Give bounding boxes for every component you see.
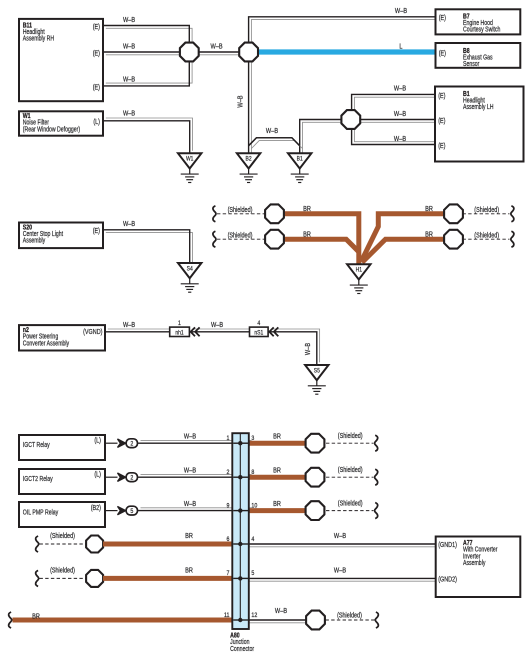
svg-text:Connector: Connector (230, 645, 254, 653)
svg-text:W–B: W–B (123, 321, 135, 329)
svg-text:(B2): (B2) (91, 504, 101, 512)
svg-text:BR: BR (425, 206, 433, 214)
svg-text:BR: BR (273, 433, 281, 441)
svg-text:(Shielded): (Shielded) (338, 500, 363, 508)
svg-text:W–B: W–B (334, 532, 346, 540)
svg-text:W–B: W–B (395, 8, 407, 16)
svg-text:W–B: W–B (184, 433, 196, 441)
svg-text:W–B: W–B (184, 500, 196, 508)
svg-text:(E): (E) (438, 92, 445, 100)
svg-text:(Shielded): (Shielded) (337, 612, 362, 620)
svg-text:1: 1 (178, 320, 181, 327)
svg-text:S5: S5 (314, 368, 320, 375)
svg-text:IGCT2 Relay: IGCT2 Relay (23, 475, 54, 483)
svg-text:(GND1): (GND1) (438, 541, 457, 549)
svg-text:(Shielded): (Shielded) (338, 433, 363, 441)
svg-text:BR: BR (273, 500, 281, 508)
svg-text:(Shielded): (Shielded) (50, 567, 75, 575)
svg-text:W–B: W–B (123, 110, 135, 118)
svg-text:11: 11 (224, 611, 230, 619)
svg-text:Converter Assembly: Converter Assembly (23, 340, 70, 348)
svg-text:12: 12 (251, 611, 257, 619)
svg-text:W–B: W–B (210, 43, 222, 51)
svg-text:L: L (399, 43, 403, 51)
svg-text:(E): (E) (93, 50, 100, 58)
svg-text:(Shielded): (Shielded) (228, 232, 253, 240)
svg-text:W–B: W–B (394, 110, 406, 118)
svg-text:H1: H1 (356, 267, 362, 274)
svg-text:nS1: nS1 (254, 330, 263, 337)
svg-text:W–B: W–B (237, 95, 245, 107)
svg-text:(Shielded): (Shielded) (474, 206, 499, 214)
svg-text:Courtesy Switch: Courtesy Switch (463, 26, 501, 34)
svg-text:(E): (E) (93, 23, 100, 31)
svg-text:Sensor: Sensor (463, 60, 479, 68)
svg-text:(Shielded): (Shielded) (50, 532, 75, 540)
svg-text:W–B: W–B (394, 135, 406, 143)
svg-text:W–B: W–B (123, 16, 135, 24)
svg-text:BR: BR (273, 467, 281, 475)
svg-text:W–B: W–B (123, 43, 135, 51)
svg-text:(Rear Window Defogger): (Rear Window Defogger) (23, 126, 80, 134)
svg-text:W–B: W–B (123, 76, 135, 84)
svg-text:BR: BR (303, 231, 311, 239)
svg-text:BR: BR (185, 567, 193, 575)
svg-text:(E): (E) (93, 228, 100, 236)
svg-text:BR: BR (32, 613, 40, 621)
svg-text:(E): (E) (439, 50, 446, 58)
svg-text:(Shielded): (Shielded) (474, 232, 499, 240)
svg-text:10: 10 (251, 502, 257, 510)
svg-text:(L): (L) (94, 471, 101, 479)
svg-text:W–B: W–B (266, 127, 278, 135)
svg-text:(Shielded): (Shielded) (338, 467, 363, 475)
svg-text:B2: B2 (246, 156, 252, 163)
svg-text:W–B: W–B (211, 321, 223, 329)
svg-text:W–B: W–B (123, 221, 135, 229)
svg-text:W–B: W–B (304, 343, 312, 355)
svg-text:S4: S4 (187, 266, 194, 273)
svg-text:(Shielded): (Shielded) (228, 206, 253, 214)
svg-text:(VGND): (VGND) (83, 329, 102, 337)
svg-text:Assembly: Assembly (463, 559, 486, 567)
svg-text:BR: BR (303, 206, 311, 214)
svg-text:Assembly RH: Assembly RH (23, 35, 55, 43)
svg-text:(E): (E) (439, 15, 446, 23)
svg-text:B1: B1 (297, 156, 303, 163)
svg-text:Assembly: Assembly (23, 237, 46, 245)
svg-text:BR: BR (185, 532, 193, 540)
svg-text:W–B: W–B (334, 567, 346, 575)
svg-text:(E): (E) (438, 142, 445, 150)
svg-text:(E): (E) (93, 84, 100, 92)
svg-text:W–B: W–B (394, 85, 406, 93)
svg-text:OIL PMP Relay: OIL PMP Relay (23, 509, 59, 517)
svg-text:IGCT Relay: IGCT Relay (23, 441, 51, 449)
svg-text:(L): (L) (93, 119, 100, 127)
svg-text:(E): (E) (438, 117, 445, 125)
svg-text:Assembly LH: Assembly LH (463, 103, 494, 111)
svg-text:(GND2): (GND2) (438, 576, 457, 584)
svg-text:nh1: nh1 (175, 330, 183, 337)
svg-text:W–B: W–B (275, 607, 287, 615)
svg-text:(L): (L) (94, 437, 101, 445)
svg-text:BR: BR (425, 231, 433, 239)
svg-text:W–B: W–B (184, 467, 196, 475)
svg-text:W1: W1 (186, 156, 193, 163)
